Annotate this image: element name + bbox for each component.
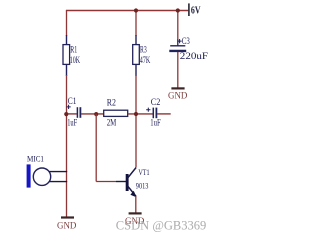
- wire right vertical from top rail to C3: [177, 11, 179, 41]
- svg-text:VT1: VT1: [138, 167, 149, 177]
- svg-text:R3: R3: [140, 45, 147, 55]
- wire from left rail node to C1: [67, 113, 77, 115]
- capacitor C3 plus mark: [178, 39, 182, 43]
- capacitor C3 top pin stub: [177, 40, 179, 46]
- transistor VT1 base pin: [116, 181, 126, 183]
- transistor VT1 emitter arm: [128, 186, 137, 197]
- transistor VT1 base bar: [126, 174, 129, 191]
- wire base horizontal to VT1: [96, 181, 116, 183]
- svg-text:GND: GND: [168, 91, 188, 101]
- capacitor C2 right plate: [155, 108, 157, 119]
- wire mid vertical from top rail to R3: [135, 11, 137, 37]
- svg-text:1uF: 1uF: [150, 118, 160, 128]
- microphone MIC1 electret plate: [27, 164, 31, 187]
- microphone MIC1 top pin: [49, 171, 67, 173]
- node junction on top rail at mid vertical: [134, 8, 138, 12]
- resistor R1 body: [63, 45, 70, 65]
- svg-text:1uF: 1uF: [67, 117, 77, 127]
- microphone MIC1 body circle: [33, 168, 50, 185]
- svg-text:C1: C1: [68, 96, 77, 106]
- svg-text:R2: R2: [107, 97, 116, 107]
- resistor R3 body: [133, 45, 140, 65]
- capacitor C1 left plate: [76, 107, 78, 118]
- svg-text:2M: 2M: [107, 117, 117, 127]
- node junction base node: [94, 112, 98, 116]
- resistor R2 body: [104, 110, 128, 116]
- capacitor C3 top plate: [170, 45, 185, 47]
- ground bar below MIC1: [61, 216, 74, 218]
- power terminal bar 6V: [188, 3, 190, 16]
- node junction on top rail at right vertical: [176, 8, 180, 12]
- svg-text:CSDN @GB3369: CSDN @GB3369: [116, 218, 207, 232]
- wire top rail from R1 top to +6V terminal: [66, 10, 189, 12]
- svg-text:47K: 47K: [140, 55, 151, 65]
- wire base drop from base node: [95, 114, 97, 182]
- wire mid vertical from R3 to collector: [135, 75, 137, 168]
- capacitor C2 left plate: [152, 108, 154, 119]
- capacitor C2 plus mark: [146, 108, 150, 112]
- wire emitter to ground: [135, 196, 137, 213]
- microphone MIC1 bottom pin: [49, 181, 67, 183]
- svg-text:C3: C3: [182, 36, 190, 46]
- capacitor C3 bottom plate: [169, 50, 186, 52]
- wire left vertical from top rail to R1: [66, 11, 68, 37]
- ground bar below C3: [171, 87, 184, 89]
- svg-text:220uF: 220uF: [180, 51, 208, 61]
- wire from C3 to ground: [177, 52, 179, 88]
- svg-text:9013: 9013: [136, 181, 149, 191]
- svg-text:GND: GND: [57, 220, 77, 230]
- wire left vertical from R1 to C1 node and down to MIC GND: [66, 75, 68, 217]
- node junction C1 left / base rail: [64, 112, 68, 116]
- transistor VT1 collector arm: [128, 168, 137, 179]
- transistor VT1 emitter arrowhead: [130, 191, 136, 198]
- wire from R2 to C2: [128, 113, 153, 115]
- resistor R1 pin stubs: [66, 35, 68, 76]
- resistor R3 pin stubs: [135, 35, 137, 76]
- svg-text:R1: R1: [70, 45, 77, 55]
- svg-text:10K: 10K: [70, 55, 81, 65]
- capacitor C1 right plate: [79, 107, 81, 118]
- ground bar below VT1 emitter: [129, 212, 142, 214]
- svg-text:6V: 6V: [191, 4, 201, 16]
- svg-text:C2: C2: [151, 97, 161, 107]
- wire output from C2: [157, 113, 171, 115]
- capacitor C1 plus mark: [67, 105, 71, 109]
- wire from C1 to R2: [81, 113, 104, 115]
- node junction R2 right / collector rail: [134, 112, 138, 116]
- svg-text:MIC1: MIC1: [27, 154, 44, 164]
